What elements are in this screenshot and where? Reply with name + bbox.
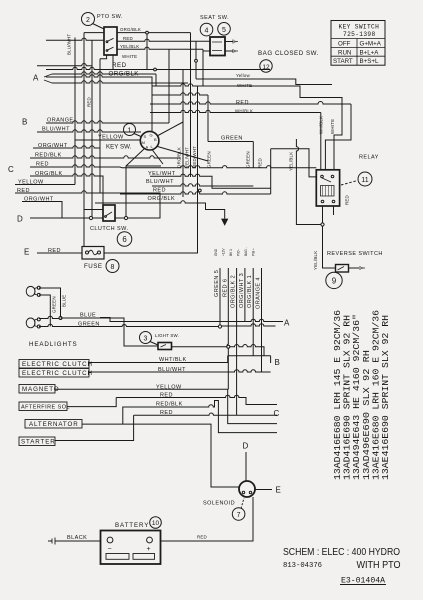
callout circle 4 — [200, 23, 213, 36]
svg-text:RED: RED — [48, 248, 61, 254]
svg-text:STARTER: STARTER — [21, 439, 56, 446]
wire V1 org/blk — [182, 70, 184, 198]
svg-text:RED: RED — [236, 100, 249, 106]
callout circle 5 — [218, 23, 231, 36]
wire connector pin3 — [236, 268, 238, 415]
wire V3 red/wht — [197, 86, 199, 194]
svg-text:RED: RED — [112, 62, 127, 69]
svg-text:+12V: +12V — [222, 248, 226, 256]
svg-text:ELECTRIC CLUTCH: ELECTRIC CLUTCH — [22, 370, 93, 377]
wire connector pin2 — [227, 268, 228, 389]
svg-text:S: S — [144, 134, 147, 139]
wire row ORG/WHT2 left — [22, 202, 91, 219]
wire alternator row — [82, 424, 239, 487]
relay K11 — [316, 170, 339, 206]
svg-text:10: 10 — [152, 520, 160, 527]
svg-text:RED: RED — [345, 195, 350, 205]
wire light sw to B — [172, 345, 271, 363]
wire clutch to junctions — [84, 210, 126, 219]
wire D to solenoid — [245, 452, 247, 481]
svg-text:GREEN: GREEN — [221, 136, 243, 142]
callout circle 1 — [124, 124, 142, 137]
svg-text:ALTERNATOR: ALTERNATOR — [29, 421, 79, 428]
callout circle 8 — [106, 260, 119, 273]
svg-text:12: 12 — [262, 64, 270, 71]
wire row YELLOW left — [15, 184, 75, 186]
svg-text:ORG/WHT 3: ORG/WHT 3 — [239, 273, 245, 308]
wire relay bottom red stub — [333, 206, 335, 215]
svg-text:13AE416E690 SPRINT SLX 92 RH: 13AE416E690 SPRINT SLX 92 RH — [380, 315, 391, 480]
wire left vertical x95 — [99, 59, 101, 193]
wire blue headlight vert — [39, 288, 61, 327]
seat switch S4 — [210, 37, 238, 56]
wire battery black — [55, 540, 101, 542]
wire V4 green — [207, 95, 209, 142]
svg-text:G+M+A: G+M+A — [360, 41, 382, 48]
svg-text:GREEN 5: GREEN 5 — [214, 270, 220, 297]
svg-text:ORG/BLK: ORG/BLK — [109, 71, 140, 78]
wire yel/blk vertical to relay/reverse — [296, 139, 322, 225]
wire WHITE from PTO pin4 — [100, 55, 107, 59]
svg-text:GREEN: GREEN — [207, 151, 212, 168]
battery B10 — [101, 531, 161, 565]
wire green vertical mid — [252, 142, 254, 168]
wire row yel/wht mid — [150, 174, 271, 188]
clutch switch S6 — [89, 205, 127, 221]
wire blue drop to light sw — [61, 318, 159, 346]
svg-text:D: D — [243, 442, 249, 451]
svg-text:B: B — [154, 137, 157, 142]
svg-text:GREEN: GREEN — [52, 296, 57, 313]
callout circle 12 — [260, 60, 272, 72]
svg-text:RED: RED — [153, 188, 166, 194]
wire left vertical x75 — [74, 38, 76, 185]
wire RED bus — [46, 67, 270, 69]
callout circle 10 — [150, 517, 162, 529]
svg-text:A: A — [284, 319, 290, 328]
connector ALTERNATOR — [25, 420, 82, 429]
svg-text:7: 7 — [237, 512, 241, 519]
wire starter row — [55, 413, 277, 440]
svg-text:YEL/WHT: YEL/WHT — [148, 171, 176, 177]
svg-text:WITH PTO: WITH PTO — [357, 559, 401, 571]
svg-text:RED: RED — [160, 393, 173, 399]
connector STARTER — [19, 437, 56, 446]
wire row to A right — [100, 318, 283, 322]
svg-text:Yellow: Yellow — [236, 73, 250, 78]
svg-text:RED: RED — [160, 410, 173, 416]
wire reverse sw right — [349, 267, 360, 269]
svg-text:9: 9 — [332, 277, 337, 286]
wire row RED2 left — [15, 191, 160, 218]
callout circle 7 — [232, 498, 245, 520]
svg-text:KEY SW.: KEY SW. — [106, 144, 132, 151]
svg-text:RELAY: RELAY — [359, 155, 379, 161]
node junction pto org/blk — [146, 31, 149, 34]
svg-text:8: 8 — [111, 264, 115, 271]
wire YEL/BLK from PTO pin3 — [117, 47, 210, 51]
svg-text:BLACK: BLACK — [67, 535, 87, 541]
wire vertical x156 — [155, 74, 157, 86]
svg-text:ORG/BLK 1: ORG/BLK 1 — [247, 275, 253, 308]
wire ORG/BLK bus — [46, 75, 152, 77]
svg-text:RED: RED — [123, 36, 133, 41]
svg-text:ORG/BLK 2: ORG/BLK 2 — [231, 275, 237, 308]
svg-text:REVERSE SWITCH: REVERSE SWITCH — [327, 251, 383, 257]
wire row E RED to fuse — [37, 252, 82, 254]
node junction pin2 light — [227, 345, 230, 348]
svg-text:1: 1 — [128, 128, 132, 135]
svg-text:ORG/WHT: ORG/WHT — [24, 197, 54, 203]
svg-text:ORG/BLK: ORG/BLK — [120, 27, 141, 32]
wire row B whtblk — [89, 356, 228, 363]
svg-text:KEY SWITCH: KEY SWITCH — [339, 24, 380, 31]
wire row org/blk mid — [95, 201, 225, 219]
svg-text:D: D — [17, 215, 23, 224]
node junction seat left — [195, 59, 198, 62]
key switch U1 — [140, 131, 159, 150]
solenoid SOL7 — [239, 481, 255, 497]
svg-text:SOLENOID: SOLENOID — [203, 501, 235, 507]
svg-text:YEL/BLK: YEL/BLK — [313, 251, 318, 270]
wire key fan diag up — [158, 122, 183, 136]
wire vertical x152 orgblk — [151, 77, 153, 133]
svg-text:5: 5 — [222, 27, 226, 34]
svg-text:AFTERFIRE SOL: AFTERFIRE SOL — [21, 405, 70, 411]
wire row A1 — [52, 72, 156, 74]
wire short row 65.7 — [37, 64, 92, 66]
svg-text:P/B +: P/B + — [251, 248, 255, 256]
wire connector pin6 — [261, 268, 263, 372]
svg-text:+: + — [147, 546, 151, 553]
wire row C RED/BLK — [30, 156, 181, 158]
svg-text:RED: RED — [17, 188, 30, 194]
svg-text:BLU/WHT: BLU/WHT — [67, 34, 72, 55]
svg-text:FUSE: FUSE — [84, 263, 103, 270]
svg-text:A: A — [33, 74, 39, 83]
wire left vertical x90 — [91, 40, 92, 218]
svg-text:RED/BLK: RED/BLK — [156, 402, 183, 408]
svg-text:B+L+A: B+L+A — [360, 49, 380, 56]
wire yellow key — [75, 139, 141, 141]
svg-text:YELLOW: YELLOW — [98, 135, 124, 141]
wire fuse to V3 — [104, 194, 198, 253]
svg-text:BLU/WHT: BLU/WHT — [146, 179, 174, 185]
svg-text:GREEN: GREEN — [246, 151, 251, 168]
wire connector pin4 — [244, 268, 246, 322]
wire ORG/BLK from PTO pin1 — [84, 33, 191, 70]
ground symbol — [222, 219, 228, 225]
svg-text:BAG CLOSED SW.: BAG CLOSED SW. — [258, 50, 319, 57]
wire row B ORANGE — [46, 49, 169, 123]
svg-text:−: − — [108, 546, 112, 553]
svg-text:RED: RED — [197, 535, 207, 540]
svg-text:WHITE: WHITE — [122, 54, 137, 59]
svg-text:LIGHT SW.: LIGHT SW. — [155, 333, 179, 338]
svg-text:P/O -: P/O - — [236, 249, 240, 256]
wire left vertical x83 — [83, 33, 85, 247]
svg-text:ORG/BLK: ORG/BLK — [35, 171, 63, 177]
svg-text:GND: GND — [214, 248, 218, 256]
svg-text:E: E — [276, 486, 281, 495]
svg-text:BATTERY: BATTERY — [115, 522, 149, 529]
connector pin tiny labels — [214, 247, 255, 256]
junction node green/conn5 — [218, 325, 221, 328]
wire green row mid — [208, 141, 253, 143]
svg-text:GREEN: GREEN — [78, 322, 100, 328]
wire row B BLU/WHT — [37, 130, 141, 132]
wire battery red — [161, 497, 254, 541]
battery left connector — [48, 538, 55, 545]
callout circle 2 — [82, 13, 105, 30]
wire yellow top row — [196, 79, 332, 85]
svg-text:ORANGE 4: ORANGE 4 — [256, 277, 262, 309]
svg-text:WHITE: WHITE — [330, 119, 335, 134]
wire connector pin5 — [252, 268, 254, 356]
svg-text:C: C — [8, 165, 14, 174]
svg-text:RED/BLK: RED/BLK — [35, 153, 62, 159]
wire magneto yellow — [55, 389, 277, 423]
wire RED from PTO pin2 — [46, 38, 210, 41]
svg-text:OFF: OFF — [338, 41, 351, 48]
wire redblk step — [123, 401, 277, 433]
svg-text:C: C — [274, 409, 280, 418]
wire red top row — [150, 102, 351, 170]
svg-text:YEL/BLK: YEL/BLK — [289, 152, 294, 171]
wire white top row — [152, 84, 342, 170]
svg-text:HEADLIGHTS: HEADLIGHTS — [29, 341, 78, 348]
svg-text:ORG/BLK: ORG/BLK — [148, 196, 176, 202]
svg-text:RED/WHT: RED/WHT — [192, 146, 197, 168]
svg-text:6: 6 — [122, 235, 126, 244]
svg-text:ORANGE: ORANGE — [47, 118, 74, 124]
svg-text:YELLOW: YELLOW — [156, 385, 182, 391]
wire solenoid E — [255, 489, 272, 491]
wire red vertical mid — [271, 149, 317, 194]
svg-text:B: B — [275, 358, 280, 367]
wire row C ORG/WHT — [33, 146, 100, 158]
svg-text:BLUE: BLUE — [62, 295, 67, 307]
wire key fan diag dn1 — [158, 147, 209, 162]
svg-text:ORG/WHT: ORG/WHT — [38, 143, 68, 149]
wire seat contacts right — [225, 42, 233, 52]
model list rotated — [332, 310, 391, 480]
svg-text:A: A — [146, 145, 149, 150]
wire row C ORG/BLK — [30, 174, 103, 205]
callout circle 11 — [341, 172, 372, 186]
wire PTO box bottom drops — [112, 55, 114, 70]
svg-text:2: 2 — [86, 17, 90, 24]
node junction red bus — [154, 68, 157, 71]
wire connector pin1 green — [219, 268, 221, 327]
svg-text:MAGNETO: MAGNETO — [22, 386, 59, 393]
svg-text:START: START — [333, 58, 353, 65]
svg-text:BLU/WHT: BLU/WHT — [42, 127, 70, 133]
svg-text:G: G — [150, 133, 153, 138]
node junction v3 red row — [198, 189, 201, 192]
fuse F8 — [82, 247, 104, 260]
svg-text:SCHEM : ELEC : 400 HYDRO: SCHEM : ELEC : 400 HYDRO — [283, 546, 400, 558]
svg-text:RED: RED — [87, 97, 92, 107]
svg-text:CLUTCH SW.: CLUTCH SW. — [90, 226, 128, 232]
svg-text:BK 1: BK 1 — [229, 249, 233, 256]
light switch S3 — [158, 343, 172, 350]
svg-text:E3-01404A: E3-01404A — [341, 576, 386, 586]
svg-text:WHT/BLK: WHT/BLK — [159, 357, 187, 363]
svg-text:11: 11 — [361, 177, 368, 184]
svg-text:WHITE: WHITE — [237, 83, 252, 88]
svg-text:PTO SW.: PTO SW. — [97, 14, 123, 20]
junction node relay bottom — [321, 223, 324, 226]
headlight lamp 2 — [26, 318, 40, 328]
svg-text:WH/BLK: WH/BLK — [319, 116, 324, 134]
node junction blue — [59, 317, 62, 320]
svg-text:L: L — [151, 144, 154, 149]
wire row blu/wht mid — [152, 184, 253, 186]
svg-text:SEAT SW.: SEAT SW. — [200, 15, 229, 21]
svg-text:YEL/WHT: YEL/WHT — [185, 147, 190, 168]
callout circle 6 — [117, 232, 132, 247]
svg-text:YEL/BLK: YEL/BLK — [120, 44, 139, 49]
reverse switch S9 — [336, 265, 366, 273]
svg-text:3: 3 — [144, 336, 148, 343]
PTO switch S2 — [104, 27, 117, 55]
svg-text:ORG/BLK: ORG/BLK — [177, 147, 182, 168]
wire V2 yel/wht — [190, 33, 192, 177]
svg-text:ELECTRIC CLUTCH: ELECTRIC CLUTCH — [22, 361, 93, 368]
svg-text:725-1398: 725-1398 — [343, 31, 376, 38]
wire green headlight long — [39, 324, 276, 327]
headlight lamp 1 — [26, 286, 40, 296]
wire row D — [30, 217, 62, 219]
svg-text:BAG -: BAG - — [244, 247, 248, 256]
svg-text:E: E — [24, 248, 29, 257]
svg-text:RED: RED — [258, 158, 263, 168]
wire relay bottom yel/blk — [323, 206, 336, 268]
svg-text:B+S+L: B+S+L — [360, 58, 379, 65]
key switch table — [331, 21, 385, 66]
wire afterfire to red row — [67, 395, 277, 406]
title E3-01404A — [340, 576, 386, 586]
wire wh/blk top row — [150, 110, 321, 170]
svg-text:WH/BLK: WH/BLK — [235, 109, 253, 114]
wire seat sw feeds — [196, 41, 203, 86]
callout circle 3 — [140, 332, 159, 346]
svg-text:4: 4 — [205, 28, 209, 35]
svg-text:813-04376: 813-04376 — [283, 562, 322, 570]
wire row C RED — [30, 165, 316, 168]
svg-text:RED 6: RED 6 — [222, 279, 228, 297]
svg-text:YELLOW: YELLOW — [18, 180, 44, 186]
svg-text:RUN: RUN — [338, 49, 351, 56]
svg-text:BLUE: BLUE — [80, 313, 96, 319]
connector ELECTRIC CLUTCH 1 — [19, 360, 93, 369]
connector ELECTRIC CLUTCH 2 — [19, 369, 93, 378]
wire row red mid — [120, 192, 271, 194]
svg-text:M: M — [142, 140, 145, 145]
svg-text:B: B — [22, 118, 27, 127]
wire lamp2 top pin — [39, 316, 61, 318]
connector pin labels rotated — [214, 270, 262, 309]
svg-text:BLU/WHT: BLU/WHT — [158, 367, 186, 373]
wire row B bluwht — [89, 370, 271, 372]
callout circle 9 — [326, 272, 342, 288]
connector MAGNETO — [19, 385, 59, 394]
wire row A2 — [52, 81, 188, 83]
wire row 95 to green vertical — [152, 93, 208, 95]
wire key fan diag dn2 — [126, 149, 163, 215]
svg-text:RED: RED — [36, 162, 49, 168]
connector AFTERFIRE SOL — [19, 402, 70, 411]
